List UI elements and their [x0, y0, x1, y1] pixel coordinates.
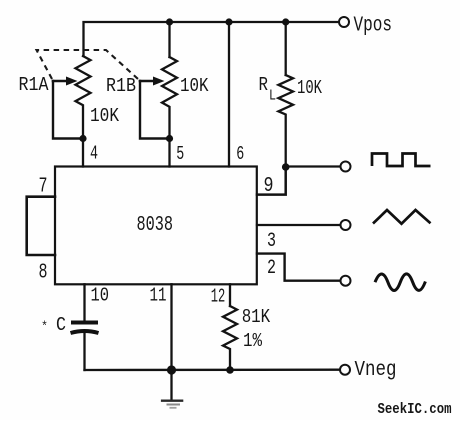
svg-text:5: 5 — [176, 143, 184, 165]
svg-text:8038: 8038 — [137, 214, 174, 237]
svg-text:12: 12 — [211, 286, 226, 308]
svg-text:10: 10 — [91, 285, 110, 307]
svg-text:Vneg: Vneg — [355, 359, 397, 382]
svg-text:10K: 10K — [180, 75, 209, 97]
svg-text:2: 2 — [267, 257, 276, 280]
svg-text:9: 9 — [264, 175, 274, 198]
svg-text:R: R — [259, 74, 269, 96]
svg-text:R1A: R1A — [19, 74, 50, 96]
svg-text:C: C — [56, 314, 66, 336]
svg-text:10K: 10K — [297, 77, 322, 99]
svg-text:L: L — [269, 88, 276, 105]
svg-text:11: 11 — [150, 285, 167, 307]
svg-text:7: 7 — [39, 176, 48, 199]
svg-text:81K: 81K — [242, 306, 271, 328]
svg-text:10K: 10K — [90, 105, 119, 127]
svg-text:R1B: R1B — [106, 75, 136, 97]
svg-text:1%: 1% — [243, 330, 262, 352]
svg-text:4: 4 — [90, 143, 98, 165]
svg-text:Vpos: Vpos — [354, 15, 393, 38]
svg-text:SeekIC.com: SeekIC.com — [378, 401, 452, 418]
svg-text:*: * — [41, 319, 48, 334]
svg-text:8: 8 — [39, 262, 48, 285]
svg-text:6: 6 — [236, 143, 244, 165]
svg-text:3: 3 — [267, 230, 276, 253]
